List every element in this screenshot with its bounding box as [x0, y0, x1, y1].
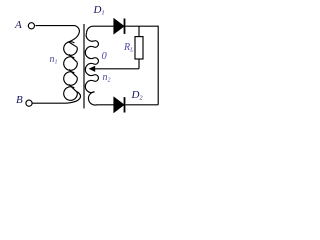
terminal B	[26, 100, 32, 106]
label D1	[94, 5, 105, 17]
secondary n2 hook 1-2	[94, 41, 98, 48]
primary n1 crossover 1-2	[69, 54, 77, 62]
diode D1 triangle	[114, 19, 124, 34]
resistor RL bottom stub	[138, 59, 140, 69]
secondary winding n2 turn 1	[86, 33, 94, 41]
primary bottom lead and wire to B	[32, 92, 80, 104]
terminal A	[28, 23, 34, 29]
secondary winding n2 turn 2	[85, 46, 94, 58]
secondary winding n2 turn 4	[85, 80, 94, 92]
primary winding n1 turn 4	[64, 87, 78, 101]
wire D1 to corner	[125, 25, 158, 27]
primary n1 crossover 3-4	[69, 84, 77, 92]
right edge wire	[157, 26, 159, 105]
secondary winding n2 turn 3	[85, 63, 94, 75]
diode D1 bar	[124, 19, 126, 34]
secondary n2 hook 3-4	[94, 75, 98, 82]
primary winding n1 turn 1	[64, 42, 78, 56]
label RL	[124, 43, 133, 54]
label n1	[50, 55, 58, 66]
transformer core	[83, 24, 85, 109]
diode D2 triangle	[114, 98, 124, 113]
bottom wire D2 to corner	[125, 104, 158, 106]
label D2	[132, 90, 143, 102]
secondary n2 hook 2-3	[94, 58, 98, 65]
label 0 center tap	[102, 52, 107, 63]
resistor RL top stub	[138, 26, 140, 36]
primary winding n1 turn 2	[64, 57, 78, 71]
primary winding n1 turn 3	[64, 72, 78, 86]
primary n1 crossover 2-3	[69, 69, 77, 77]
label A	[15, 20, 22, 31]
resistor RL body	[135, 37, 143, 59]
label B	[16, 95, 23, 106]
wire A to primary coil with top lead curl	[36, 26, 80, 48]
diode D2 bar	[124, 97, 126, 112]
wire secondary top to D1 with lead	[87, 26, 114, 33]
label n2	[103, 73, 111, 84]
center tap arrowhead	[89, 66, 96, 72]
center tap wire	[95, 68, 140, 70]
secondary bottom lead to D2 wire	[88, 92, 113, 105]
